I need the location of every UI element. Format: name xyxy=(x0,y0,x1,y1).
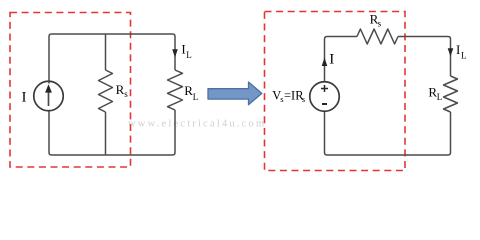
current arrow I head right circuit (up) xyxy=(322,58,328,67)
current arrow IL head left circuit (down) xyxy=(172,49,178,57)
svg-text:www.electrical4u.com: www.electrical4u.com xyxy=(128,119,266,130)
resistor Rs (left circuit, vertical zigzag) xyxy=(99,70,113,112)
svg-text:s: s xyxy=(124,89,128,99)
svg-text:I: I xyxy=(22,90,27,106)
wire: right circuit right branch bottom xyxy=(325,112,451,156)
wire: left circuit bottom rail xyxy=(49,110,175,155)
minus sign inside voltage source xyxy=(322,103,327,105)
current source arrow head (up) xyxy=(45,84,52,92)
resistor Rs (right circuit, horizontal zigzag) xyxy=(357,29,398,44)
svg-text:L: L xyxy=(193,92,199,102)
Thevenin source dashed boundary box xyxy=(265,12,406,171)
svg-text:L: L xyxy=(461,51,467,61)
resistor RL (right circuit, vertical zigzag) xyxy=(444,76,458,112)
resistor RL (left circuit, vertical zigzag) xyxy=(168,70,183,110)
svg-text:I: I xyxy=(181,42,185,57)
current arrow IL head right circuit (down) xyxy=(448,48,454,56)
svg-text:L: L xyxy=(186,50,192,60)
Norton source dashed boundary box xyxy=(10,13,131,168)
svg-text:I: I xyxy=(329,52,334,68)
svg-text:L: L xyxy=(437,92,443,102)
wire: right circuit top rail after Rs xyxy=(398,37,451,77)
svg-text:I: I xyxy=(456,42,460,57)
svg-text:s: s xyxy=(302,94,305,104)
current source I (circle) xyxy=(34,81,64,111)
svg-text:s: s xyxy=(378,19,382,29)
transformation arrow (blue block arrow) xyxy=(208,82,262,105)
wire: left circuit middle branch top xyxy=(105,34,107,70)
wire: right circuit left branch (V source to top rail) xyxy=(325,37,358,82)
current source arrow shaft xyxy=(48,90,50,106)
plus sign inside voltage source xyxy=(321,85,328,92)
watermark www.electrical4u.com xyxy=(128,119,266,130)
voltage source Vs (circle) xyxy=(310,82,340,112)
wire: left circuit top rail xyxy=(49,34,175,84)
wire: left circuit middle branch bottom xyxy=(105,112,107,155)
